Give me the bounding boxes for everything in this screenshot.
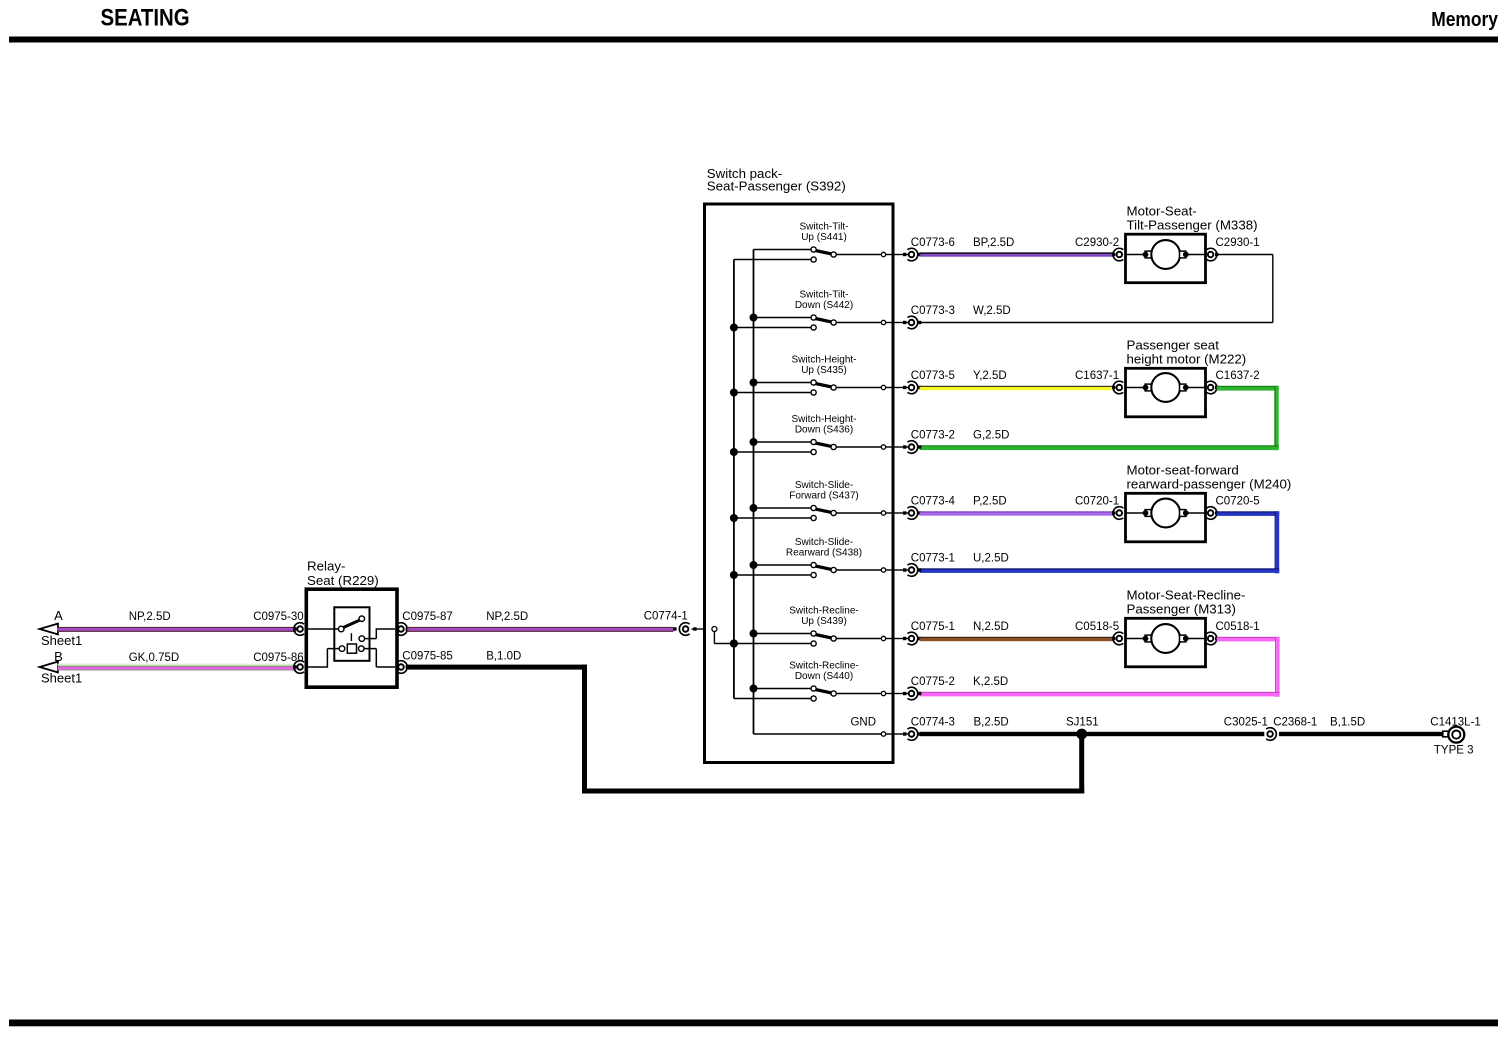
svg-text:C1637-2: C1637-2: [1216, 370, 1260, 382]
connector C2930-1: [1207, 248, 1219, 261]
feed bus (outer vertical): [733, 260, 735, 699]
svg-text:Seat-Passenger (S392): Seat-Passenger (S392): [707, 179, 846, 194]
connector C0774-1: [679, 623, 703, 636]
connector C0518-1: [1207, 632, 1219, 645]
svg-text:C1413L-1: C1413L-1: [1430, 717, 1481, 729]
connector C0773-4: [895, 507, 918, 520]
connector C2930-2: [1113, 248, 1123, 261]
svg-text:C1637-1: C1637-1: [1075, 370, 1119, 382]
svg-text:Up (S441): Up (S441): [801, 232, 847, 243]
connector C0773-2: [895, 441, 918, 454]
svg-text:Down (S436): Down (S436): [795, 425, 853, 436]
switch S436: [730, 414, 893, 456]
svg-text:C0774-3: C0774-3: [911, 717, 955, 729]
connector C0774-3: [895, 728, 918, 741]
connector C3025-1 / C2368-1: [1266, 728, 1276, 741]
wire G,2.5D loop: [918, 386, 1279, 450]
switch S440: [734, 661, 893, 702]
svg-text:B: B: [54, 649, 63, 664]
svg-text:C0720-5: C0720-5: [1216, 496, 1260, 508]
switch S442: [730, 290, 893, 332]
svg-text:C3025-1: C3025-1: [1224, 717, 1268, 729]
svg-text:Up (S435): Up (S435): [801, 365, 847, 376]
svg-text:C0518-1: C0518-1: [1216, 621, 1260, 633]
svg-text:Switch-Slide-: Switch-Slide-: [795, 480, 853, 491]
splice SJ151: [1076, 729, 1087, 740]
svg-text:B,2.5D: B,2.5D: [974, 717, 1009, 729]
svg-text:C0975-85: C0975-85: [402, 651, 453, 663]
top rule: [9, 37, 1498, 43]
svg-text:B,1.0D: B,1.0D: [486, 651, 521, 663]
svg-text:C0518-5: C0518-5: [1075, 621, 1119, 633]
svg-text:C0775-2: C0775-2: [911, 676, 955, 688]
svg-text:C0773-5: C0773-5: [911, 370, 955, 382]
relay R229 internal element: [308, 607, 395, 667]
connector C0775-2: [895, 687, 918, 700]
svg-text:C0975-87: C0975-87: [402, 611, 453, 623]
motor M338: [1126, 203, 1258, 282]
wire N,2.5D row 7: [918, 637, 1116, 641]
svg-text:rearward-passenger (M240): rearward-passenger (M240): [1127, 476, 1292, 491]
svg-text:A: A: [54, 608, 63, 623]
svg-text:Switch-Recline-: Switch-Recline-: [789, 606, 858, 617]
off-page arrow A (Sheet1): [40, 608, 83, 648]
svg-text:N,2.5D: N,2.5D: [973, 621, 1009, 633]
svg-text:C0773-6: C0773-6: [911, 237, 955, 249]
switch S437: [730, 480, 893, 522]
wire B,2.5D ground run: [918, 732, 1264, 736]
connector C0775-1: [895, 632, 918, 645]
svg-text:Passenger seat: Passenger seat: [1127, 337, 1220, 352]
svg-text:C2930-2: C2930-2: [1075, 237, 1119, 249]
wire Y,2.5D row 3: [918, 386, 1116, 390]
svg-text:Switch-Slide-: Switch-Slide-: [795, 537, 853, 548]
motor M313: [1126, 587, 1246, 666]
svg-text:Sheet1: Sheet1: [41, 671, 82, 686]
connector C0518-5: [1113, 632, 1123, 645]
svg-text:height motor (M222): height motor (M222): [1127, 351, 1247, 366]
svg-text:TYPE 3: TYPE 3: [1434, 745, 1474, 757]
svg-text:Down (S440): Down (S440): [795, 671, 853, 682]
wire W,2.5D loop: [918, 255, 1273, 325]
svg-text:Forward (S437): Forward (S437): [789, 491, 858, 502]
motor M240: [1126, 462, 1292, 541]
svg-text:Seat (R229): Seat (R229): [307, 573, 379, 588]
svg-text:C0975-30: C0975-30: [253, 611, 304, 623]
svg-text:NP,2.5D: NP,2.5D: [486, 611, 528, 623]
svg-text:SEATING: SEATING: [101, 4, 190, 31]
svg-text:Passenger (M313): Passenger (M313): [1127, 601, 1236, 616]
connector C0773-5: [895, 381, 918, 394]
svg-text:C2930-1: C2930-1: [1216, 237, 1260, 249]
wire U,2.5D loop: [918, 511, 1279, 573]
svg-text:GND: GND: [850, 717, 876, 729]
switch pack S392 box: [705, 166, 894, 763]
connector C0773-3: [895, 316, 918, 329]
svg-text:Switch-Recline-: Switch-Recline-: [789, 661, 858, 672]
svg-text:C0975-86: C0975-86: [253, 652, 304, 664]
motor M222: [1126, 337, 1247, 416]
svg-text:Switch-Height-: Switch-Height-: [791, 414, 856, 425]
off-page arrow B (Sheet1): [40, 649, 83, 686]
connector C0975-86: [294, 661, 304, 674]
svg-text:Up (S439): Up (S439): [801, 616, 847, 627]
switch S435: [730, 355, 893, 397]
svg-text:SJ151: SJ151: [1066, 717, 1099, 729]
svg-text:C2368-1: C2368-1: [1273, 717, 1317, 729]
svg-text:C0773-4: C0773-4: [911, 496, 956, 508]
svg-text:C0775-1: C0775-1: [911, 621, 955, 633]
svg-text:C0773-1: C0773-1: [911, 553, 955, 565]
svg-text:NP,2.5D: NP,2.5D: [129, 611, 171, 623]
wire NP,2.5D from sheet1 A to C0975-30: [57, 627, 297, 632]
svg-text:Switch-Height-: Switch-Height-: [791, 355, 856, 366]
svg-text:Motor-Seat-Recline-: Motor-Seat-Recline-: [1127, 587, 1246, 602]
svg-text:C0720-1: C0720-1: [1075, 496, 1119, 508]
svg-text:B,1.5D: B,1.5D: [1330, 717, 1365, 729]
svg-text:Switch-Tilt-: Switch-Tilt-: [799, 290, 848, 301]
wire K,2.5D loop: [918, 637, 1280, 697]
svg-text:C0773-2: C0773-2: [911, 430, 955, 442]
wire B,1.0D from C0975-85 down to ground run: [406, 665, 1085, 794]
switch S439: [730, 606, 893, 648]
svg-text:Y,2.5D: Y,2.5D: [973, 370, 1007, 382]
svg-text:GK,0.75D: GK,0.75D: [129, 652, 180, 664]
wire B,1.5D: [1279, 732, 1442, 736]
svg-text:C0774-1: C0774-1: [644, 611, 688, 623]
svg-text:Relay-: Relay-: [307, 559, 345, 574]
connector C0773-6: [895, 248, 918, 261]
wire GK,0.75D from sheet1 B to C0975-86: [58, 664, 297, 671]
ground bus (inner vertical): [753, 250, 755, 735]
connector C0720-5: [1207, 507, 1219, 520]
svg-text:Motor-Seat-: Motor-Seat-: [1127, 203, 1197, 218]
svg-text:BP,2.5D: BP,2.5D: [973, 237, 1014, 249]
bottom rule: [9, 1020, 1498, 1027]
svg-text:Down (S442): Down (S442): [795, 300, 853, 311]
svg-text:U,2.5D: U,2.5D: [973, 553, 1009, 565]
wire NP,2.5D from C0975-87 to C0774-1: [406, 627, 677, 632]
switch S441: [734, 222, 893, 263]
svg-text:P,2.5D: P,2.5D: [973, 496, 1007, 508]
GND internal line: [754, 717, 894, 737]
connector C0975-30: [294, 623, 304, 636]
svg-text:Memory: Memory: [1431, 9, 1498, 32]
connector C1637-1: [1113, 381, 1123, 394]
svg-text:Motor-seat-forward: Motor-seat-forward: [1127, 462, 1239, 477]
connector C1637-2: [1207, 381, 1219, 394]
svg-text:C0773-3: C0773-3: [911, 305, 955, 317]
svg-text:K,2.5D: K,2.5D: [973, 676, 1008, 688]
svg-text:Tilt-Passenger (M338): Tilt-Passenger (M338): [1127, 217, 1258, 232]
svg-text:Switch-Tilt-: Switch-Tilt-: [799, 222, 848, 233]
wire BP,2.5D row 1: [918, 252, 1116, 256]
connector C0975-85: [397, 661, 407, 674]
connector C0975-87: [397, 623, 407, 636]
svg-text:Rearward (S438): Rearward (S438): [786, 548, 862, 559]
svg-text:W,2.5D: W,2.5D: [973, 305, 1011, 317]
svg-text:G,2.5D: G,2.5D: [973, 430, 1009, 442]
connector C0773-1: [895, 564, 918, 577]
svg-text:Sheet1: Sheet1: [41, 633, 82, 648]
switch S438: [730, 537, 893, 579]
eyelet C1413L-1 TYPE 3: [1430, 717, 1481, 757]
C0774-1 internal feed path: [712, 627, 738, 648]
relay R229 box: [306, 559, 397, 688]
connector C0720-1: [1113, 507, 1123, 520]
wire P,2.5D row 5: [918, 511, 1116, 515]
